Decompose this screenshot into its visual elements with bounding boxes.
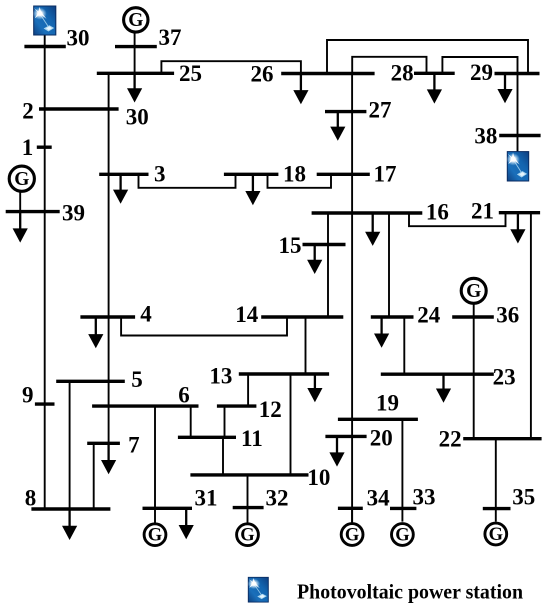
load arrow bus 28 bbox=[427, 73, 442, 103]
svg-text:28: 28 bbox=[391, 61, 414, 86]
svg-text:35: 35 bbox=[512, 485, 535, 510]
bus 9 tick bbox=[35, 402, 55, 405]
bus 2 bar bbox=[39, 107, 119, 110]
load arrow bus 27 bbox=[330, 112, 345, 141]
bus 26 bar bbox=[281, 72, 374, 75]
load arrow bus 16 bbox=[365, 213, 380, 246]
wire 13-10 vertical bbox=[290, 374, 292, 475]
svg-text:21: 21 bbox=[471, 199, 494, 224]
wire 16-24 vertical bbox=[388, 213, 390, 317]
bus 33 bar bbox=[390, 507, 416, 510]
wire G37-37-25 vertical bbox=[134, 33, 136, 73]
bus 11 bar bbox=[178, 436, 236, 439]
svg-text:19: 19 bbox=[376, 391, 399, 416]
svg-text:G: G bbox=[395, 526, 409, 546]
bus 30 bar (top left) bbox=[24, 45, 65, 48]
svg-text:10: 10 bbox=[307, 465, 330, 490]
svg-text:25: 25 bbox=[179, 61, 202, 86]
load arrow bus 3 bbox=[113, 174, 128, 204]
wire 26-27-17-16-19-20-34 long vertical bbox=[351, 74, 353, 523]
bus 27 bar bbox=[325, 110, 366, 113]
load arrow bus 4 bbox=[88, 317, 103, 348]
svg-text:16: 16 bbox=[426, 200, 449, 225]
svg-text:1: 1 bbox=[22, 135, 34, 160]
bus 8 bar bbox=[31, 507, 110, 510]
bus 21 bar bbox=[499, 211, 540, 214]
legend photovoltaic icon bbox=[248, 577, 269, 602]
svg-text:30: 30 bbox=[126, 105, 149, 130]
wire 26-28 loop bbox=[352, 57, 426, 74]
wire 6-31-G vertical bbox=[154, 406, 156, 523]
svg-text:14: 14 bbox=[235, 302, 258, 327]
generator G at bus 32 bbox=[237, 524, 259, 546]
svg-text:17: 17 bbox=[374, 162, 397, 187]
bus 24 bar bbox=[371, 315, 414, 318]
load arrow bus 29 bbox=[497, 74, 512, 104]
load arrow bus 8 bbox=[62, 509, 77, 540]
bus 23 bar bbox=[381, 373, 494, 376]
generator G at bus 39 bbox=[9, 166, 34, 191]
svg-text:26: 26 bbox=[251, 61, 274, 86]
bus 38 bar bbox=[499, 134, 540, 137]
bus 37 bar bbox=[115, 45, 157, 48]
bus 28 bar bbox=[414, 72, 455, 75]
svg-text:33: 33 bbox=[413, 485, 436, 510]
wire 4-14 connector bbox=[121, 317, 287, 336]
svg-text:36: 36 bbox=[496, 303, 519, 328]
bus 29 bar bbox=[495, 72, 540, 75]
bus 17 bar bbox=[317, 173, 370, 176]
load arrow bus 20 bbox=[329, 436, 344, 466]
wire G36-36-23-22 vertical bbox=[473, 304, 475, 438]
photovoltaic power station at bus 38 bbox=[506, 152, 528, 181]
svg-text:8: 8 bbox=[25, 485, 37, 510]
wire 12-11 vertical bbox=[224, 406, 226, 437]
bus 25 bar bbox=[97, 72, 174, 75]
bus 39 bar bbox=[6, 210, 60, 213]
svg-text:3: 3 bbox=[154, 162, 166, 187]
wire 7-8 vertical bbox=[93, 443, 95, 509]
generator G at bus 33 bbox=[392, 524, 414, 546]
wire PV30-30-2-1-39-9-8 long left vertical bbox=[44, 33, 46, 509]
bus 16 bar bbox=[312, 211, 423, 214]
load arrow bus 13 bbox=[307, 374, 322, 402]
wire 5-8 vertical bbox=[69, 381, 71, 509]
svg-text:32: 32 bbox=[266, 486, 289, 511]
bus 18 bar bbox=[224, 173, 279, 176]
wire G34 stem handled by long vertical bbox=[351, 508, 353, 522]
wire 24-23 vertical bbox=[403, 317, 405, 374]
load arrow bus 26 bbox=[293, 74, 308, 105]
generator G at bus 35 bbox=[485, 523, 507, 545]
photovoltaic power station at bus 30 bbox=[33, 6, 56, 35]
svg-text:18: 18 bbox=[283, 162, 306, 187]
svg-text:38: 38 bbox=[474, 124, 497, 149]
load arrow bus 31 bbox=[179, 508, 194, 539]
load arrow bus 39 bbox=[13, 212, 28, 243]
svg-text:Photovoltaic power station: Photovoltaic power station bbox=[297, 580, 523, 604]
wire 16-21 connector bbox=[409, 213, 506, 227]
svg-text:7: 7 bbox=[128, 433, 140, 458]
svg-text:31: 31 bbox=[195, 486, 218, 511]
bus 36 bar bbox=[452, 315, 494, 318]
load arrow bus 15 bbox=[307, 245, 322, 275]
svg-text:G: G bbox=[148, 526, 162, 546]
wire 11-10 vertical bbox=[222, 437, 224, 475]
wire 25-2-3 vertical bbox=[108, 73, 110, 174]
wire G39 stem bbox=[19, 192, 21, 211]
wire 25-26 step bbox=[161, 61, 301, 73]
wire 19-33-G vertical bbox=[401, 419, 403, 521]
generator G at bus 34 bbox=[341, 524, 363, 546]
bus 31 bar bbox=[143, 507, 193, 510]
svg-text:29: 29 bbox=[470, 60, 493, 85]
bus 32 bar bbox=[233, 506, 264, 509]
svg-text:24: 24 bbox=[417, 303, 441, 328]
svg-text:13: 13 bbox=[209, 364, 232, 389]
wire 14-13 vertical bbox=[305, 317, 307, 374]
svg-text:4: 4 bbox=[140, 302, 152, 327]
bus 10 bar bbox=[190, 473, 308, 476]
wire 16-15-14 vertical bbox=[327, 213, 329, 317]
bus 4 bar bbox=[80, 315, 135, 318]
bus 5 bar bbox=[56, 380, 125, 383]
svg-text:39: 39 bbox=[62, 200, 85, 225]
wire 22-35-G vertical bbox=[495, 439, 497, 522]
svg-text:30: 30 bbox=[67, 26, 90, 51]
wire 12-13 vertical bbox=[247, 374, 249, 406]
wire 28-29 loop and 29-38 vertical bbox=[442, 57, 517, 152]
svg-text:15: 15 bbox=[279, 233, 302, 258]
svg-text:23: 23 bbox=[493, 364, 516, 389]
wire 21-22 vertical bbox=[530, 213, 532, 439]
bus 34 bar bbox=[338, 507, 363, 510]
svg-text:G: G bbox=[128, 10, 143, 31]
svg-text:2: 2 bbox=[22, 99, 34, 124]
load arrow bus 23 bbox=[436, 374, 451, 403]
svg-text:22: 22 bbox=[439, 426, 462, 451]
svg-text:G: G bbox=[466, 281, 481, 302]
bus 7 bar bbox=[87, 442, 120, 445]
svg-text:6: 6 bbox=[178, 383, 190, 408]
svg-text:G: G bbox=[240, 526, 254, 546]
load arrow bus 24 bbox=[374, 317, 389, 348]
bus 12 bar bbox=[217, 404, 257, 407]
bus 15 bar bbox=[303, 243, 346, 246]
load arrow bus 21 bbox=[510, 213, 525, 244]
load arrow bus 18 bbox=[245, 174, 260, 205]
bus 3 bar bbox=[99, 173, 148, 176]
svg-text:12: 12 bbox=[259, 397, 282, 422]
bus 13 bar bbox=[239, 372, 329, 375]
svg-text:G: G bbox=[14, 169, 29, 190]
wire 10-32-G vertical bbox=[247, 475, 249, 523]
bus 20 bar bbox=[325, 435, 366, 438]
generator G at bus 36 bbox=[461, 278, 486, 303]
wire 26-29 outer loop bbox=[327, 40, 528, 74]
load arrow bus 25 bbox=[127, 73, 142, 102]
svg-text:11: 11 bbox=[241, 426, 263, 451]
bus 6 bar bbox=[92, 404, 198, 407]
svg-text:37: 37 bbox=[159, 25, 182, 50]
svg-text:G: G bbox=[489, 525, 503, 545]
svg-text:20: 20 bbox=[370, 425, 393, 450]
bus 35 bar bbox=[483, 507, 511, 510]
load arrow bus 7 bbox=[101, 443, 116, 474]
wire 3-4-5-6-7 vertical bbox=[108, 174, 110, 443]
bus 22 bar bbox=[463, 437, 541, 440]
generator G at bus 31 bbox=[144, 524, 166, 546]
wire 3-18 connector bbox=[139, 174, 236, 188]
svg-text:9: 9 bbox=[22, 382, 34, 407]
generator G at bus 37 bbox=[124, 8, 148, 32]
bus 19 bar bbox=[338, 418, 418, 421]
svg-text:5: 5 bbox=[131, 367, 143, 392]
bus 14 bar bbox=[261, 315, 343, 318]
bus 1 tick bbox=[37, 145, 52, 148]
svg-text:34: 34 bbox=[367, 486, 391, 511]
wire 6-11 vertical bbox=[190, 406, 192, 437]
svg-text:27: 27 bbox=[369, 97, 392, 122]
svg-text:G: G bbox=[345, 526, 359, 546]
wire 18-17 connector bbox=[268, 174, 332, 188]
